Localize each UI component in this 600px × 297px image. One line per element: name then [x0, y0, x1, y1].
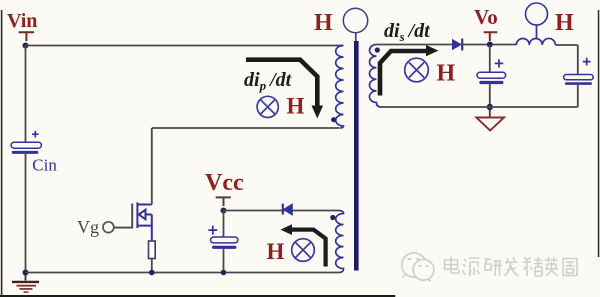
wire top rail [26, 45, 344, 47]
diode D-out [453, 39, 463, 51]
watermark logo bubble small [413, 259, 434, 281]
diode D-aux [283, 204, 293, 215]
wire diode to inductor [463, 44, 517, 46]
node output ground junction [487, 104, 493, 110]
wire output bottom rail [381, 106, 578, 108]
node top terminal circle [343, 8, 367, 32]
Vg terminal circle [103, 222, 114, 233]
arrow di_p [246, 60, 323, 119]
wire circle to inductor stem [536, 25, 538, 39]
ground (input) [12, 275, 39, 292]
wire drain riser [152, 128, 339, 205]
watermark logo bubble big [402, 253, 426, 278]
watermark text 电源研发精英圈 [445, 257, 578, 277]
源 [463, 258, 480, 276]
wire inductor to right cap [555, 45, 577, 75]
node secondary phase dot [375, 47, 380, 52]
inductor L-out [516, 38, 555, 45]
svg-text:Vcc: Vcc [205, 170, 244, 196]
Vo terminal [484, 32, 498, 41]
wire gate lead [114, 204, 132, 228]
arrow H aux [281, 224, 326, 266]
inductor secondary winding [370, 45, 381, 108]
transformer core [354, 41, 359, 271]
Vin terminal [19, 32, 34, 41]
svg-text:Cin: Cin [32, 156, 57, 175]
node resistor junction [149, 270, 155, 276]
capacitor C-Vcc [208, 211, 238, 273]
symbol H-into-page secondary [405, 58, 429, 82]
wire bottom rail [26, 272, 340, 274]
英 [545, 257, 558, 276]
node Vcc cap junction [221, 270, 227, 276]
capacitor Cin [11, 131, 57, 175]
wire left vertical lower [25, 154, 27, 273]
frame left border [1, 10, 3, 297]
node primary phase dot [331, 117, 336, 122]
ground (output) [476, 110, 504, 131]
wire left vertical upper [25, 46, 27, 143]
symbol H-into-page primary [257, 96, 278, 117]
Vcc terminal [216, 197, 231, 206]
frame right border [598, 10, 600, 257]
wire circle stem [355, 33, 357, 41]
研 [484, 259, 502, 276]
wire resistor to rail [151, 259, 153, 273]
inductor aux winding [336, 211, 344, 273]
精 [523, 257, 543, 276]
wire secondary top to diode [377, 44, 453, 46]
node aux phase dot [330, 215, 335, 220]
svg-text:H: H [437, 61, 456, 87]
inductor primary winding [336, 46, 344, 129]
svg-text:Vg: Vg [77, 217, 99, 237]
resistor R1 [149, 241, 156, 259]
transistor Q1 MOSFET [137, 202, 151, 241]
node Vin junction [23, 43, 29, 49]
arrow di_s [380, 45, 439, 96]
svg-text:Vin: Vin [7, 10, 37, 32]
svg-text:H: H [287, 94, 305, 119]
node bottom-left junction [23, 270, 29, 276]
symbol H-into-page aux [292, 239, 315, 262]
svg-text:H: H [555, 10, 574, 36]
wire aux rail [224, 210, 339, 212]
capacitor C-out2 [564, 58, 594, 107]
发 [505, 257, 519, 276]
bottom frame line [0, 295, 395, 297]
圈 [563, 259, 577, 276]
svg-text:H: H [267, 239, 285, 264]
node output circle [526, 3, 548, 25]
svg-text:H: H [314, 10, 333, 36]
电 [445, 257, 460, 274]
node Vcc junction [221, 208, 227, 214]
svg-text:Vo: Vo [474, 5, 498, 29]
node Vo junction [487, 42, 493, 48]
capacitor C-out1 [477, 45, 506, 108]
